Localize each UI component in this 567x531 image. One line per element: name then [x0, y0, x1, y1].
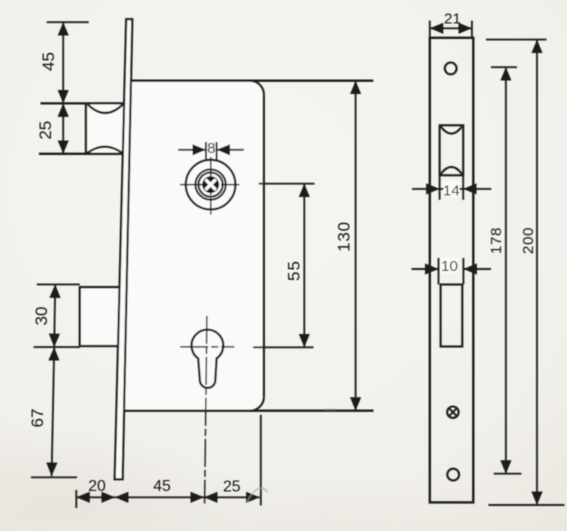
svg-text:67: 67 — [28, 409, 47, 428]
svg-text:130: 130 — [334, 221, 353, 252]
svg-text:200: 200 — [520, 227, 537, 254]
svg-text:20: 20 — [88, 478, 106, 495]
svg-text:10: 10 — [441, 258, 458, 275]
svg-text:45: 45 — [153, 478, 171, 495]
svg-text:178: 178 — [488, 227, 505, 254]
svg-text:25: 25 — [36, 121, 55, 140]
svg-text:55: 55 — [285, 260, 304, 281]
svg-text:25: 25 — [223, 479, 241, 496]
svg-text:30: 30 — [32, 307, 51, 326]
svg-text:45: 45 — [39, 52, 58, 71]
svg-text:21: 21 — [444, 10, 461, 27]
svg-text:14: 14 — [443, 183, 460, 200]
svg-text:8: 8 — [207, 140, 215, 157]
